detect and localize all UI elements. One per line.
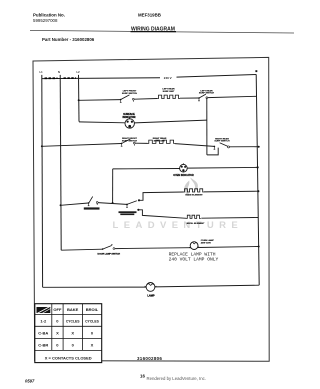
switch S4 right rear surface <box>214 143 230 150</box>
svg-text:SURF UNIT: SURF UNIT <box>154 140 166 142</box>
svg-text:C-BA: C-BA <box>38 331 48 336</box>
junction L1 to row2 <box>41 145 43 147</box>
door lamp <box>145 283 157 292</box>
thermostat switch <box>88 197 98 207</box>
wire broil right segment <box>201 217 258 220</box>
wire bake row <box>140 192 184 200</box>
wire bake row right segment <box>204 190 259 193</box>
svg-text:240 VOLT LAMP ONLY: 240 VOLT LAMP ONLY <box>169 256 219 262</box>
svg-text:5995297008: 5995297008 <box>33 18 58 23</box>
svg-text:X: X <box>71 331 74 336</box>
svg-text:Part Number - 316002806: Part Number - 316002806 <box>42 37 95 42</box>
wire top supply bus <box>42 77 160 80</box>
selector switch common <box>126 199 140 211</box>
wire row1 right segment <box>208 96 257 97</box>
svg-text:316002806: 316002806 <box>137 356 162 361</box>
junction bake to right vertical <box>257 190 259 192</box>
wire row2 right-mid segment <box>175 144 214 147</box>
wire oven indicator right segment <box>187 166 257 169</box>
svg-text:SURF SWITCH: SURF SWITCH <box>199 93 215 95</box>
svg-text:BROIL: BROIL <box>86 307 99 312</box>
svg-text:BAKE: BAKE <box>67 307 79 312</box>
svg-text:OFF: OFF <box>53 307 62 312</box>
switch S1 left front surface <box>120 95 134 103</box>
junction L2 to row1 <box>78 99 80 101</box>
wire lamp row right <box>198 247 259 248</box>
wire right return vertical <box>256 74 259 285</box>
svg-text:LAMP: LAMP <box>147 294 155 298</box>
wire color code dashes on bus <box>45 77 58 79</box>
svg-text:N: N <box>58 70 60 74</box>
indicator light surface <box>125 118 134 129</box>
element right surface unit <box>148 140 175 143</box>
svg-text:C-BR: C-BR <box>38 343 48 348</box>
svg-text:OVEN INDICATOR: OVEN INDICATOR <box>173 174 194 177</box>
svg-text:X: X <box>56 331 59 336</box>
table outer border <box>35 304 102 363</box>
wire door switch row right <box>115 247 190 250</box>
wire indicator row right segment <box>134 120 206 123</box>
wire oven indicator row <box>113 168 180 170</box>
wire N vertical <box>60 75 61 250</box>
wire row2 right segment <box>230 146 259 148</box>
junction on thermostat row <box>112 202 114 204</box>
watermark flame <box>184 178 198 196</box>
wire row2 mid segment <box>135 142 147 144</box>
switch S3 right front surface <box>121 139 135 147</box>
node dot above right vertical <box>255 70 257 72</box>
diagram border box <box>33 57 269 361</box>
wire L1 vertical <box>41 75 44 287</box>
svg-text:SURF SWITCH: SURF SWITCH <box>214 141 230 143</box>
svg-text:SURF SWITCH: SURF SWITCH <box>122 93 138 95</box>
svg-text:240 V: 240 V <box>164 76 172 80</box>
svg-text:Rendered by LeadVenture, Inc.: Rendered by LeadVenture, Inc. <box>147 376 206 381</box>
svg-text:BAKE ELEMENT: BAKE ELEMENT <box>185 194 203 197</box>
wire indicator row left segment <box>79 121 125 124</box>
svg-text:CYCLES: CYCLES <box>66 320 80 324</box>
oven lamp <box>189 242 199 250</box>
table header switch cell smudge <box>37 307 51 313</box>
wire row2 left segment <box>42 144 121 147</box>
wire thermostat row left segment <box>61 203 89 205</box>
wire bottom lamp row <box>43 286 147 288</box>
svg-text:CYCLES: CYCLES <box>85 320 99 324</box>
table column lines <box>51 304 53 351</box>
wire bottom lamp row right <box>155 285 259 287</box>
svg-text:Publication No.: Publication No. <box>33 13 65 18</box>
svg-text:BROIL ELEMENT: BROIL ELEMENT <box>187 223 205 225</box>
svg-text:0597: 0597 <box>25 379 35 384</box>
wire row1 mid segment <box>134 98 157 101</box>
wire door switch row left <box>61 249 102 250</box>
wire row1 left segment <box>79 99 121 102</box>
door lamp switch <box>102 244 115 250</box>
label selector switch <box>119 211 137 213</box>
junction oven indicator to right vertical <box>257 166 259 168</box>
svg-text:SURF SWITCH: SURF SWITCH <box>122 141 138 143</box>
wire L2 vertical <box>78 75 81 122</box>
junction lamp row to right vertical <box>258 246 260 248</box>
element broil <box>187 215 201 218</box>
svg-text:SURF UNIT: SURF UNIT <box>163 91 175 93</box>
svg-text:X = CONTACTS CLOSED: X = CONTACTS CLOSED <box>45 355 92 360</box>
junction N to thermostat row <box>60 204 62 206</box>
svg-text:MEF319BB: MEF319BB <box>138 13 161 18</box>
svg-text:INDICATOR: INDICATOR <box>122 116 135 119</box>
svg-text:1-2: 1-2 <box>40 319 47 324</box>
indicator light oven <box>180 163 188 172</box>
svg-text:DOOR LAMP SWITCH: DOOR LAMP SWITCH <box>98 252 121 255</box>
switch S2 left rear surface <box>198 94 208 101</box>
label thermostat <box>84 207 100 209</box>
header rule <box>30 30 294 33</box>
svg-text:40W 120V: 40W 120V <box>201 242 212 245</box>
wire thermostat row mid segment <box>98 203 127 205</box>
svg-text:X: X <box>91 343 94 348</box>
element bake <box>184 189 204 192</box>
wire row1 right-mid segment <box>180 97 199 99</box>
table row lines <box>35 313 102 315</box>
svg-text:LEADVENTURE: LEADVENTURE <box>113 220 244 231</box>
wire hook to S4 <box>207 148 218 155</box>
wire switch drop vertical <box>206 98 208 155</box>
svg-text:16: 16 <box>140 374 145 379</box>
wire drop oven indicator to thermostat row <box>112 169 114 203</box>
junction row2 to right vertical <box>258 146 260 148</box>
wire broil row <box>139 210 187 219</box>
element left surface unit <box>157 95 180 98</box>
